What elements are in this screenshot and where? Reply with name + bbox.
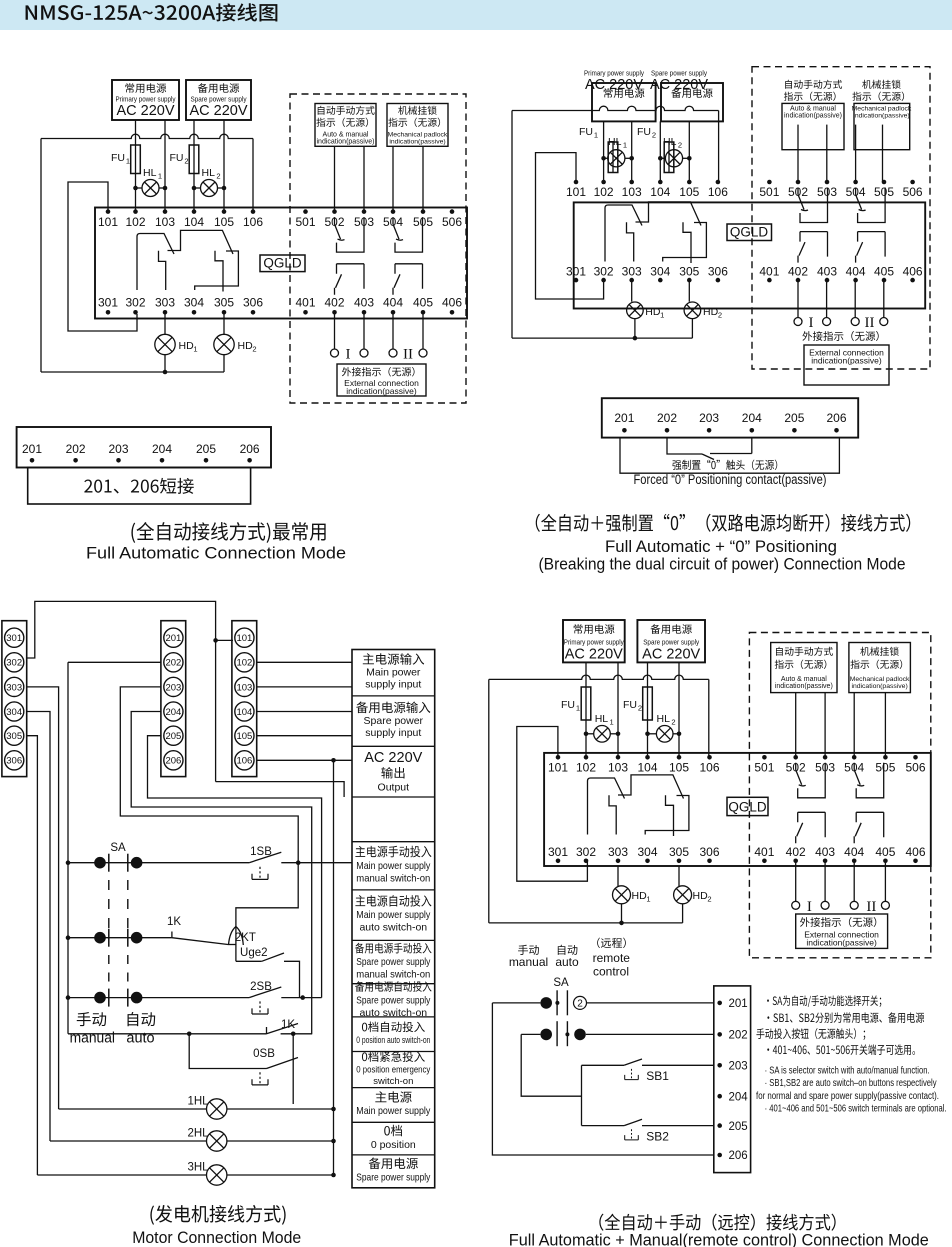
svg-text:105: 105: [669, 761, 689, 775]
caption BR english: [509, 1231, 929, 1247]
svg-text:supply input: supply input: [365, 679, 421, 691]
power source box 常用电源: [563, 620, 625, 663]
terminal 102: [125, 209, 145, 229]
wire 334.5 to external indicator: [334, 312, 336, 349]
svg-text:SA: SA: [110, 842, 126, 854]
terminal 101: [566, 180, 586, 199]
terminal 506: [442, 209, 462, 229]
indication box 机械挂锁指示(无源): [387, 104, 448, 147]
wire lamp return bus: [489, 921, 683, 926]
wire 502 to box: [795, 693, 797, 758]
svg-text:303: 303: [155, 296, 175, 310]
wire 503 to box: [826, 125, 828, 182]
svg-text:1: 1: [158, 172, 162, 181]
fuse FU1: [581, 687, 591, 720]
label HL1: [143, 167, 162, 181]
svg-text:manual: manual: [70, 1031, 115, 1047]
rung3 wire: [66, 992, 249, 1004]
contact Uge2: [236, 947, 300, 998]
terminal 405: [875, 845, 895, 863]
svg-text:204: 204: [152, 442, 172, 456]
wire FU2 to terminal 104: [193, 174, 195, 212]
terminal 302: [594, 264, 614, 282]
svg-text:305: 305: [669, 845, 689, 859]
svg-text:AC 220V: AC 220V: [116, 103, 174, 119]
indication box Auto&manual: [782, 103, 844, 149]
contact 402-403: [798, 232, 828, 263]
wire 393 to external indicator: [392, 312, 394, 349]
wire box2 to 105: [678, 662, 680, 757]
indication box Mechanical padlock: [852, 103, 912, 149]
power source labels (primary, overlapping): [584, 69, 644, 94]
svg-text:Spare power: Spare power: [364, 715, 424, 727]
wire left rail to 206: [492, 1003, 713, 1155]
lamp HD2: [684, 280, 701, 338]
svg-text:Spare power supply: Spare power supply: [356, 994, 431, 1006]
svg-text:2: 2: [671, 718, 675, 727]
pushbutton SB1: [582, 1059, 714, 1083]
terminal 404: [846, 264, 866, 282]
notes english: [756, 1066, 947, 1115]
svg-text:Mechanical padlock: Mechanical padlock: [388, 132, 448, 139]
svg-text:FU: FU: [561, 699, 575, 711]
terminal 401: [759, 264, 779, 282]
wire left rail: [511, 111, 513, 339]
label HD1: [645, 306, 664, 320]
pushbutton 0SB: [252, 1048, 298, 1085]
label HL2: [657, 713, 676, 727]
svg-text:501: 501: [754, 761, 774, 775]
label HL2: [663, 136, 682, 150]
svg-text:303: 303: [6, 682, 22, 693]
svg-text:405: 405: [874, 264, 894, 278]
changeover contacts (102-105): [588, 775, 689, 836]
wire box to 104: [659, 121, 661, 182]
SA row1 (to 201): [492, 996, 713, 1009]
terminal 304: [637, 845, 657, 863]
external connection box: [804, 345, 889, 385]
svg-text:· 401~406 and 501~506 switch t: · 401~406 and 501~506 switch terminals a…: [765, 1104, 947, 1115]
svg-text:104: 104: [184, 215, 204, 229]
label QGLD: [260, 255, 305, 272]
wire 105 to table: [257, 735, 352, 737]
svg-text:indication(passive): indication(passive): [853, 113, 909, 120]
svg-text:II: II: [866, 899, 876, 915]
wire box to 103: [631, 121, 633, 182]
terminal 506: [903, 180, 923, 199]
svg-text:305: 305: [679, 264, 699, 278]
power source labels (spare, overlapping): [650, 69, 708, 94]
svg-text:505: 505: [874, 185, 894, 199]
svg-text:104: 104: [236, 707, 252, 718]
svg-text:HD: HD: [693, 890, 709, 902]
terminal 404: [844, 845, 864, 863]
forced-0 contact 202-204: [667, 438, 752, 460]
indication labels 机械挂锁指示: [852, 80, 904, 101]
svg-text:Spare power supply: Spare power supply: [356, 956, 431, 968]
svg-text:Motor Connection Mode: Motor Connection Mode: [132, 1228, 301, 1247]
notes chinese: [756, 995, 924, 1055]
svg-text:302: 302: [6, 658, 22, 669]
table row 0档: [371, 1125, 416, 1151]
terminal strip QGLD outline: [95, 208, 467, 319]
svg-text:406: 406: [903, 264, 923, 278]
svg-text:303: 303: [622, 264, 642, 278]
svg-text:403: 403: [817, 264, 837, 278]
label HD1: [179, 340, 198, 354]
svg-text:303: 303: [608, 845, 628, 859]
indication labels 机械挂锁指示: [851, 647, 903, 669]
svg-text:205: 205: [196, 442, 216, 456]
terminal 406: [442, 296, 462, 315]
terminal 405: [874, 264, 894, 282]
svg-text:Auto & manual: Auto & manual: [781, 676, 827, 683]
terminal 106: [708, 180, 728, 199]
svg-text:0SB: 0SB: [253, 1048, 275, 1060]
wire FU1 to terminal 102: [135, 174, 137, 212]
lamp HD2: [674, 866, 692, 923]
svg-text:306: 306: [708, 264, 728, 278]
svg-text:401: 401: [759, 264, 779, 278]
dashed option box: [749, 633, 930, 958]
svg-text:I: I: [809, 315, 814, 331]
svg-text:402: 402: [786, 845, 806, 859]
svg-text:FU: FU: [170, 152, 184, 164]
fuse FU2: [643, 687, 653, 720]
terminal 104: [184, 209, 204, 229]
caption TL chinese: [131, 522, 325, 543]
terminal 306: [699, 845, 719, 863]
fuse FU2 (overlapping lamp): [664, 142, 674, 173]
svg-text:301: 301: [6, 633, 22, 644]
wire stub to table row4: [216, 782, 345, 797]
svg-text:II: II: [865, 315, 875, 331]
wire 102 to table: [257, 661, 352, 663]
svg-text:402: 402: [788, 264, 808, 278]
terminal 104: [637, 755, 657, 775]
terminal 505: [874, 180, 894, 199]
wire 304 to 2HL: [27, 712, 50, 1142]
svg-text:2: 2: [678, 141, 682, 150]
svg-text:HD: HD: [703, 306, 719, 318]
svg-text:101: 101: [236, 633, 252, 644]
svg-text:302: 302: [576, 845, 596, 859]
rung5 wire: [189, 1034, 266, 1069]
terminal 106: [243, 209, 263, 229]
wire bus to 106 (hops over 102-105): [41, 134, 253, 211]
svg-text:SB1: SB1: [646, 1069, 669, 1083]
terminal 506: [905, 755, 925, 775]
contact 1K: [167, 916, 236, 945]
lamp HL2: [192, 180, 227, 197]
terminal 305: [679, 264, 699, 282]
terminal strip QGLD outline: [544, 753, 931, 866]
svg-text:401: 401: [754, 845, 774, 859]
label 强制置0触头: [672, 460, 777, 470]
table row 0档紧急投入: [356, 1051, 430, 1087]
wire lamp return bus: [512, 336, 692, 341]
svg-text:0 position: 0 position: [371, 1139, 416, 1151]
table row 主电源手动投入: [355, 846, 431, 885]
svg-text:1: 1: [193, 345, 197, 354]
svg-text:103: 103: [608, 761, 628, 775]
terminal 206: [826, 411, 846, 433]
wire 825.1 to external indicator: [824, 861, 826, 902]
svg-text:1: 1: [660, 311, 664, 320]
svg-text:1: 1: [610, 718, 614, 727]
terminal 103: [622, 180, 642, 199]
svg-text:204: 204: [165, 707, 181, 718]
svg-text:506: 506: [903, 185, 923, 199]
wire 855.2 to external indicator: [854, 280, 856, 317]
svg-text:control: control: [593, 965, 629, 979]
svg-text:403: 403: [815, 845, 835, 859]
wire left rail (106 return): [40, 139, 42, 373]
svg-text:206: 206: [826, 411, 846, 425]
terminal 404: [383, 296, 403, 315]
terminal 403: [815, 845, 835, 863]
external indicator terminals I II: [794, 315, 888, 331]
terminal 105: [669, 755, 689, 775]
svg-text:auto switch-on: auto switch-on: [359, 922, 427, 934]
terminal 203: [717, 1061, 747, 1073]
svg-text:(Breaking the dual circuit of: (Breaking the dual circuit of power) Con…: [539, 555, 906, 574]
svg-text:205: 205: [729, 1121, 748, 1133]
terminal 401: [295, 296, 315, 315]
table row 备用电源输入: [356, 702, 430, 740]
svg-text:HL: HL: [657, 713, 671, 725]
label HL1: [595, 713, 614, 727]
label 自动 auto: [126, 1012, 155, 1047]
label HL1: [608, 136, 627, 150]
wire 502 to box: [797, 125, 799, 182]
svg-text:Auto & manual: Auto & manual: [323, 132, 369, 139]
svg-text:201: 201: [22, 442, 42, 456]
lamp HL2 (overlapped): [658, 150, 692, 167]
terminal 501: [295, 209, 315, 229]
selector switch SA: [553, 977, 569, 1046]
svg-text:101: 101: [566, 185, 586, 199]
svg-text:Spare power supply: Spare power supply: [356, 1172, 431, 1184]
svg-text:0 position emergency: 0 position emergency: [356, 1065, 430, 1076]
terminal 303: [155, 296, 175, 315]
terminal strip QGLD outline: [574, 202, 926, 308]
label QGLD: [727, 797, 768, 815]
lamp 1HL: [59, 1096, 336, 1120]
rung1 wire: [66, 857, 249, 869]
svg-text:203: 203: [729, 1061, 748, 1073]
svg-text:204: 204: [742, 411, 762, 425]
svg-text:HD: HD: [645, 306, 661, 318]
svg-text:HD: HD: [632, 890, 648, 902]
wire 503 to box: [824, 693, 826, 758]
terminal 405: [413, 296, 433, 315]
terminal 505: [413, 209, 433, 229]
terminal 202: [66, 442, 86, 463]
shorting box 201,206短接: [28, 468, 251, 505]
svg-text:QGLD: QGLD: [730, 225, 769, 240]
table row 主电源: [356, 1091, 431, 1117]
caption TR english 2: [539, 555, 906, 574]
svg-text:406: 406: [905, 845, 925, 859]
contact 1K second: [267, 1019, 313, 1036]
lamp 3HL: [37, 1162, 335, 1186]
terminal 406: [905, 845, 925, 863]
label HD2: [238, 340, 257, 354]
user terminal strip 201-206: [17, 427, 271, 468]
caption TL english: [86, 544, 346, 563]
svg-text:501: 501: [759, 185, 779, 199]
svg-text:AC 220V: AC 220V: [364, 750, 422, 766]
terminal 204: [717, 1091, 748, 1103]
svg-text:1K: 1K: [167, 916, 181, 928]
terminal 206: [240, 442, 260, 463]
wire 798 to external indicator: [797, 280, 799, 317]
terminal 402: [788, 264, 808, 282]
svg-text:FU: FU: [111, 152, 125, 164]
terminal 302: [576, 845, 596, 863]
svg-text:106: 106: [236, 756, 252, 767]
svg-text:205: 205: [784, 411, 804, 425]
svg-text:for normal and spare power sup: for normal and spare power supply(passiv…: [756, 1091, 939, 1102]
rung2 wire: [66, 932, 172, 944]
svg-text:202: 202: [729, 1030, 748, 1042]
terminal 504: [846, 180, 866, 199]
svg-text:505: 505: [413, 215, 433, 229]
svg-text:1HL: 1HL: [187, 1096, 209, 1108]
wire 201-206 shorting loop: [620, 438, 839, 474]
svg-text:HD: HD: [238, 340, 254, 352]
wire box1 to 103: [617, 662, 619, 757]
terminal 306: [243, 296, 263, 315]
wire 1K2 junction down: [292, 1034, 294, 1104]
wire 504 to indication box: [392, 146, 394, 211]
wire 505 to box: [882, 125, 884, 182]
terminal 102: [576, 755, 596, 775]
svg-text:Mechanical padlock: Mechanical padlock: [850, 676, 910, 683]
svg-text:202: 202: [66, 442, 86, 456]
svg-text:Mechanical padlock: Mechanical padlock: [852, 106, 912, 113]
svg-text:206: 206: [729, 1150, 748, 1162]
svg-text:103: 103: [622, 185, 642, 199]
terminal 201: [614, 411, 634, 433]
terminal 502: [786, 755, 806, 775]
label QGLD: [727, 224, 772, 241]
forced-0 terminal strip: [602, 398, 858, 437]
wire 826.6 to external indicator: [826, 280, 828, 317]
svg-text:206: 206: [165, 756, 181, 767]
svg-text:2: 2: [216, 172, 220, 181]
label FU1: [579, 126, 598, 140]
svg-text:FU: FU: [579, 126, 593, 138]
svg-text:indication(passive): indication(passive): [389, 139, 445, 146]
table row 0档自动投入: [356, 1022, 430, 1046]
terminal strip 201-206: [161, 621, 186, 777]
terminal 102: [594, 180, 614, 199]
caption TR english 1: [605, 537, 837, 556]
contact 504-505: [856, 188, 886, 223]
svg-text:Primary power supply: Primary power supply: [564, 638, 624, 647]
svg-text:201: 201: [165, 633, 181, 644]
svg-text:auto switch-on: auto switch-on: [359, 1007, 427, 1019]
label 手动 manual: [70, 1012, 115, 1047]
caption BR chinese: [599, 1214, 835, 1231]
svg-text:II: II: [403, 347, 413, 363]
external indicator terminals I II: [331, 347, 428, 363]
svg-text:102: 102: [236, 658, 252, 669]
dashed option box: [752, 67, 930, 369]
lamp HD1: [155, 312, 175, 372]
dashed option box: [290, 94, 466, 403]
wire 504 to box: [853, 693, 855, 758]
wire 103 to table: [257, 686, 352, 688]
svg-text:406: 406: [442, 296, 462, 310]
caption BL english: [132, 1228, 301, 1247]
terminal 105: [679, 180, 699, 199]
wire 302 to 101 top route: [27, 601, 233, 781]
terminal 503: [815, 755, 835, 775]
svg-text:306: 306: [6, 756, 22, 767]
contact 504-505: [854, 763, 884, 798]
svg-text:FU: FU: [637, 126, 651, 138]
svg-text:106: 106: [243, 215, 263, 229]
svg-text:404: 404: [383, 296, 403, 310]
svg-text:QGLD: QGLD: [263, 256, 302, 271]
svg-text:0 position auto switch-on: 0 position auto switch-on: [356, 1035, 430, 1045]
svg-text:506: 506: [905, 761, 925, 775]
svg-text:AC 220V: AC 220V: [189, 103, 247, 119]
terminal 203: [108, 442, 128, 463]
wire 104 to table: [257, 711, 352, 713]
svg-text:Main power: Main power: [366, 667, 421, 679]
svg-text:Main power supply: Main power supply: [356, 860, 431, 872]
wire 205 route: [148, 736, 322, 998]
terminal 303: [608, 845, 628, 863]
label FU1: [561, 699, 580, 713]
svg-text:103: 103: [236, 682, 252, 693]
contact 502-503: [335, 217, 365, 252]
svg-text:Main power supply: Main power supply: [356, 909, 431, 921]
svg-text:Uge2: Uge2: [240, 947, 268, 959]
function table grid: [352, 650, 435, 1188]
terminal 402: [324, 296, 344, 315]
svg-text:203: 203: [699, 411, 719, 425]
power source box 常用电源 (overlapped): [592, 83, 656, 121]
terminal 202: [717, 1030, 747, 1042]
svg-text:Full Automatic + “0” Positio: Full Automatic + “0” Positioning: [605, 537, 837, 556]
wire 1SB junction to 2KT: [236, 863, 298, 928]
terminal 301: [566, 264, 586, 282]
terminal 501: [759, 180, 779, 199]
svg-text:402: 402: [324, 296, 344, 310]
SA row2 (to 202): [521, 1029, 714, 1041]
table row 备用电源自动投入: [355, 981, 431, 1019]
svg-text:· SB1,SB2 are auto switch–on b: · SB1,SB2 are auto switch–on buttons res…: [765, 1078, 937, 1089]
terminal strip 101-106: [232, 621, 257, 777]
svg-text:HL: HL: [608, 136, 622, 148]
wire 505 to indication box: [422, 146, 424, 211]
svg-text:401: 401: [295, 296, 315, 310]
svg-text:201: 201: [614, 411, 634, 425]
lamp HD1: [627, 280, 644, 338]
wire box to 102: [603, 121, 605, 182]
title text NMSG-125A~3200A接线图: [26, 3, 278, 21]
svg-text:AC 220V: AC 220V: [650, 77, 708, 93]
terminal 103: [608, 755, 628, 775]
terminal 305: [669, 845, 689, 863]
lamp HL1: [133, 180, 167, 197]
svg-text:Full Automatic Connection Mode: Full Automatic Connection Mode: [86, 544, 346, 563]
